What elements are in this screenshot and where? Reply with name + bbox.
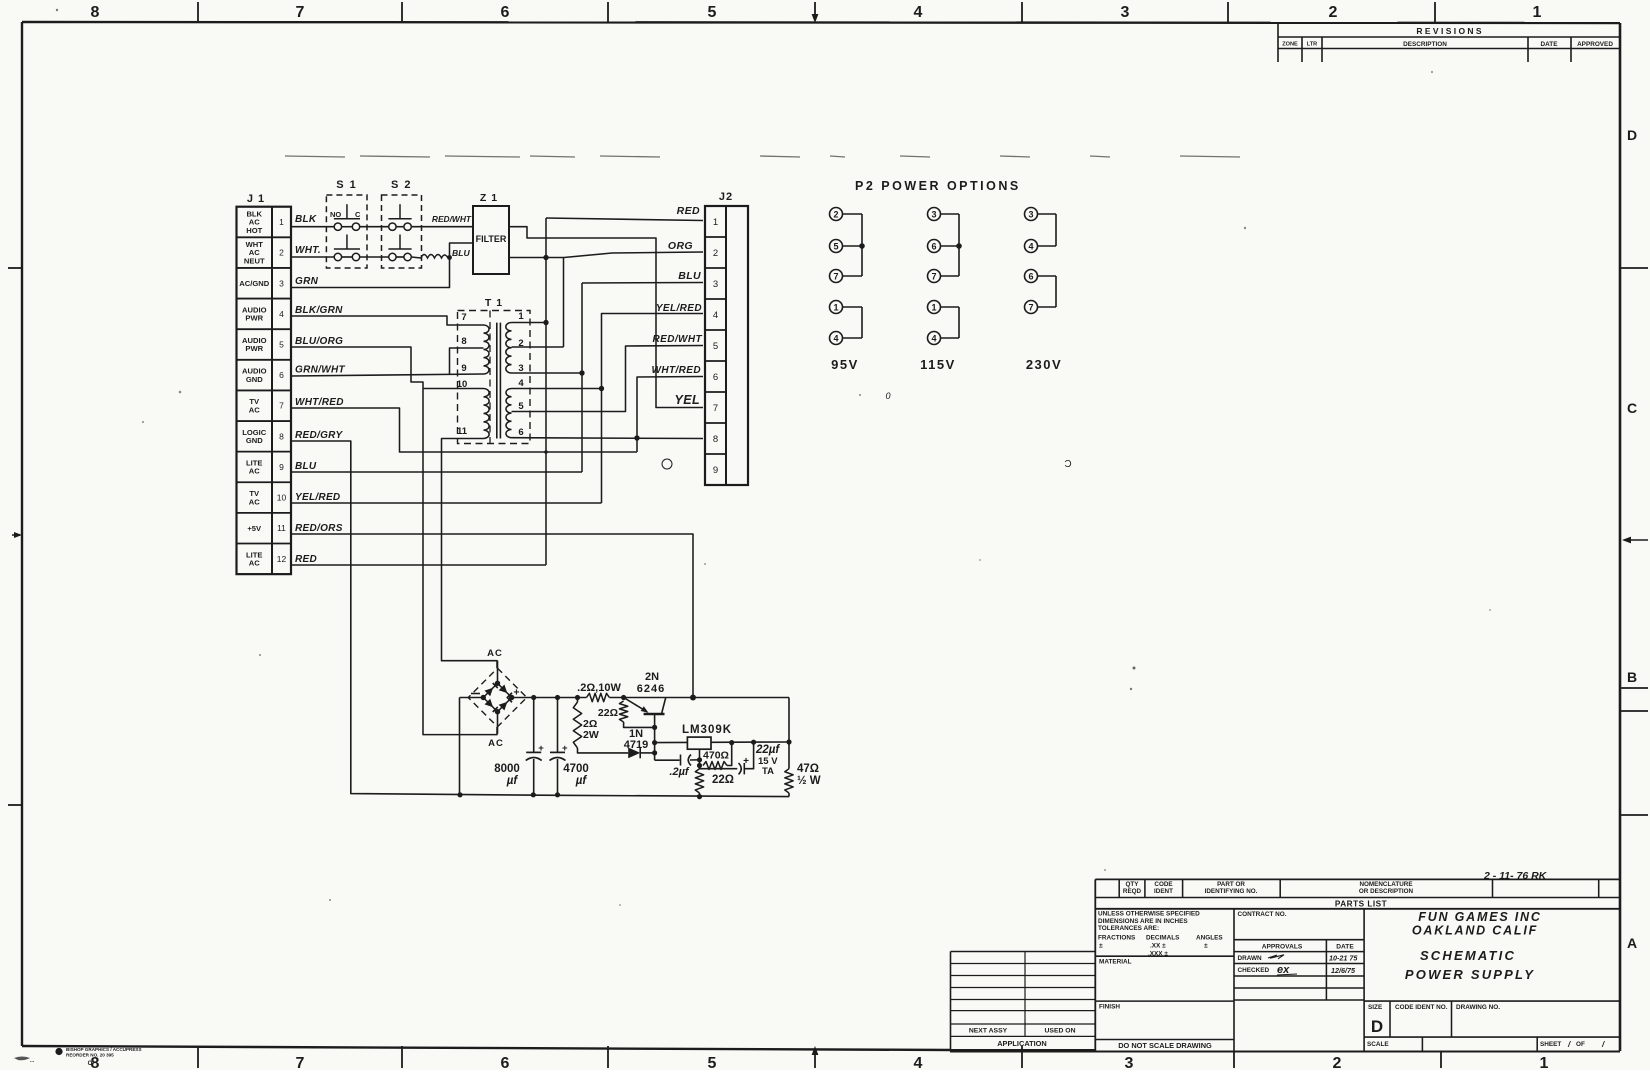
svg-text:RED/WHT: RED/WHT bbox=[653, 334, 703, 345]
svg-text:GND: GND bbox=[246, 375, 263, 384]
svg-text:4: 4 bbox=[518, 378, 524, 389]
svg-text:2N: 2N bbox=[645, 671, 659, 683]
svg-text:5: 5 bbox=[708, 1055, 717, 1070]
svg-text:3: 3 bbox=[518, 363, 523, 374]
svg-text:AC: AC bbox=[249, 405, 260, 414]
svg-text:10: 10 bbox=[457, 379, 468, 390]
svg-text:DATE: DATE bbox=[1541, 41, 1559, 48]
svg-text:BLK/GRN: BLK/GRN bbox=[295, 305, 343, 316]
svg-text:BISHOP GRAPHICS / ACCUPRESS: BISHOP GRAPHICS / ACCUPRESS bbox=[66, 1047, 142, 1052]
svg-text:4: 4 bbox=[914, 4, 923, 21]
svg-text:REORDER NO. 20 395: REORDER NO. 20 395 bbox=[66, 1053, 114, 1058]
svg-text:MATERIAL: MATERIAL bbox=[1099, 959, 1132, 966]
svg-text:6: 6 bbox=[279, 370, 284, 380]
svg-text:11: 11 bbox=[457, 426, 468, 437]
svg-text:DATE: DATE bbox=[1336, 944, 1354, 951]
svg-text:5: 5 bbox=[713, 341, 718, 352]
svg-text:TA: TA bbox=[762, 766, 774, 777]
svg-text:6246: 6246 bbox=[637, 683, 665, 695]
svg-text:4: 4 bbox=[713, 310, 718, 321]
svg-text:GND: GND bbox=[246, 436, 263, 445]
svg-text:10-21 75: 10-21 75 bbox=[1329, 954, 1358, 963]
svg-text:4: 4 bbox=[931, 333, 936, 343]
svg-text:6: 6 bbox=[931, 241, 936, 251]
svg-text:Z 1: Z 1 bbox=[480, 192, 498, 204]
svg-text:3: 3 bbox=[931, 209, 936, 219]
svg-text:FRACTIONS: FRACTIONS bbox=[1098, 935, 1136, 942]
svg-text:BLU: BLU bbox=[295, 461, 317, 472]
svg-text:POWER SUPPLY: POWER SUPPLY bbox=[1405, 967, 1535, 982]
svg-text:PARTS LIST: PARTS LIST bbox=[1335, 900, 1387, 909]
svg-text:NEXT ASSY: NEXT ASSY bbox=[969, 1028, 1008, 1035]
svg-text:S 1: S 1 bbox=[336, 179, 357, 191]
svg-text:ORG: ORG bbox=[668, 240, 693, 252]
svg-text:2: 2 bbox=[279, 248, 284, 258]
svg-text:CODE: CODE bbox=[1154, 881, 1172, 888]
svg-text:NEUT: NEUT bbox=[244, 256, 265, 265]
svg-text:4: 4 bbox=[914, 1055, 923, 1070]
svg-text:PWR: PWR bbox=[245, 314, 263, 323]
svg-text:AC: AC bbox=[249, 497, 260, 506]
svg-text:FILTER: FILTER bbox=[476, 234, 507, 244]
svg-text:.2Ω,10W: .2Ω,10W bbox=[577, 682, 621, 694]
svg-text:PART OR: PART OR bbox=[1217, 881, 1245, 888]
svg-text:J2: J2 bbox=[719, 191, 733, 203]
svg-text:22Ω: 22Ω bbox=[712, 774, 734, 786]
svg-text:QTY: QTY bbox=[1126, 881, 1140, 888]
svg-text:OAKLAND CALIF: OAKLAND CALIF bbox=[1412, 924, 1538, 938]
svg-text:DO NOT SCALE DRAWING: DO NOT SCALE DRAWING bbox=[1118, 1041, 1212, 1050]
svg-text:Ɔ: Ɔ bbox=[1064, 459, 1071, 470]
svg-text:8: 8 bbox=[279, 431, 284, 441]
svg-text:AC: AC bbox=[249, 467, 260, 476]
svg-text:OF: OF bbox=[1576, 1041, 1585, 1048]
svg-text:S 2: S 2 bbox=[391, 179, 412, 191]
svg-text:RED/ORS: RED/ORS bbox=[295, 523, 343, 534]
svg-text:OR DESCRIPTION: OR DESCRIPTION bbox=[1359, 888, 1414, 895]
svg-text:4: 4 bbox=[279, 309, 284, 319]
svg-text:4: 4 bbox=[833, 333, 838, 343]
svg-text:FINISH: FINISH bbox=[1099, 1004, 1120, 1011]
svg-text:12/6/75: 12/6/75 bbox=[1331, 966, 1356, 975]
svg-text:47Ω: 47Ω bbox=[797, 763, 819, 775]
svg-text:+: + bbox=[562, 743, 568, 754]
svg-text:5: 5 bbox=[708, 4, 717, 21]
svg-text:5: 5 bbox=[833, 241, 838, 251]
svg-text:1: 1 bbox=[713, 217, 718, 228]
svg-text:9: 9 bbox=[279, 462, 284, 472]
svg-text:2: 2 bbox=[713, 248, 718, 259]
svg-text:AC/GND: AC/GND bbox=[239, 279, 269, 288]
svg-text:LM309K: LM309K bbox=[682, 724, 732, 736]
svg-text:DRAWING NO.: DRAWING NO. bbox=[1456, 1004, 1500, 1011]
svg-text:±: ± bbox=[1099, 943, 1103, 950]
svg-text:5: 5 bbox=[518, 401, 524, 412]
svg-text:+5V: +5V bbox=[247, 524, 262, 533]
svg-text:RED: RED bbox=[677, 205, 700, 217]
svg-text:7: 7 bbox=[713, 403, 718, 414]
svg-text:9: 9 bbox=[461, 363, 466, 374]
svg-text:AC: AC bbox=[249, 559, 260, 568]
svg-text:5: 5 bbox=[279, 339, 284, 349]
svg-text:4: 4 bbox=[1028, 241, 1033, 251]
svg-text:3: 3 bbox=[1121, 4, 1130, 21]
svg-text:95V: 95V bbox=[831, 357, 859, 372]
svg-text:...: ... bbox=[30, 1058, 35, 1064]
svg-text:WHT.: WHT. bbox=[295, 245, 321, 256]
svg-text:+: + bbox=[743, 756, 749, 767]
svg-text:7: 7 bbox=[833, 271, 838, 281]
svg-text:470Ω: 470Ω bbox=[703, 750, 729, 762]
svg-text:8: 8 bbox=[461, 336, 466, 347]
svg-text:±: ± bbox=[1204, 943, 1208, 950]
svg-text:FUN GAMES INC: FUN GAMES INC bbox=[1418, 910, 1541, 924]
svg-text:GRN: GRN bbox=[295, 276, 319, 287]
svg-text:WHT/RED: WHT/RED bbox=[295, 397, 344, 408]
svg-text:APPLICATION: APPLICATION bbox=[997, 1039, 1047, 1048]
svg-text:6: 6 bbox=[501, 1055, 510, 1070]
svg-text:µf: µf bbox=[506, 775, 519, 787]
svg-text:SCALE: SCALE bbox=[1367, 1041, 1389, 1048]
svg-text:7: 7 bbox=[296, 4, 305, 21]
svg-text:CONTRACT NO.: CONTRACT NO. bbox=[1238, 911, 1287, 918]
svg-text:IDENTIFYING NO.: IDENTIFYING NO. bbox=[1205, 888, 1258, 895]
svg-text:LTR: LTR bbox=[1307, 42, 1317, 48]
svg-text:3: 3 bbox=[279, 278, 284, 288]
svg-text:+: + bbox=[538, 743, 544, 754]
svg-text:7: 7 bbox=[279, 401, 284, 411]
svg-text:2W: 2W bbox=[583, 729, 599, 741]
svg-text:11: 11 bbox=[277, 523, 286, 533]
svg-text:7: 7 bbox=[931, 271, 936, 281]
svg-text:APPROVALS: APPROVALS bbox=[1262, 944, 1303, 951]
svg-text:BLU/ORG: BLU/ORG bbox=[295, 336, 343, 347]
svg-text:4700: 4700 bbox=[563, 763, 589, 775]
svg-text:NO: NO bbox=[330, 210, 341, 219]
svg-text:1: 1 bbox=[931, 302, 936, 312]
svg-text:GRN/WHT: GRN/WHT bbox=[295, 365, 345, 376]
svg-text:3: 3 bbox=[1028, 209, 1033, 219]
svg-text:O: O bbox=[88, 1061, 93, 1067]
svg-text:B: B bbox=[1627, 669, 1637, 685]
svg-text:4719: 4719 bbox=[624, 739, 648, 751]
svg-text:6: 6 bbox=[501, 4, 510, 21]
svg-text:1: 1 bbox=[1533, 4, 1542, 21]
svg-text:IDENT: IDENT bbox=[1154, 888, 1173, 895]
svg-text:µf: µf bbox=[575, 775, 588, 787]
svg-text:SIZE: SIZE bbox=[1368, 1004, 1383, 1011]
svg-text:P2 POWER OPTIONS: P2 POWER OPTIONS bbox=[855, 179, 1021, 193]
svg-text:2: 2 bbox=[833, 209, 838, 219]
svg-text:YEL/RED: YEL/RED bbox=[656, 303, 702, 314]
svg-text:NOMENCLATURE: NOMENCLATURE bbox=[1359, 881, 1412, 888]
svg-text:.2µf: .2µf bbox=[669, 766, 690, 778]
svg-text:.XX ±: .XX ± bbox=[1150, 943, 1166, 950]
svg-text:BLK: BLK bbox=[295, 214, 317, 225]
svg-text:REQD: REQD bbox=[1123, 888, 1142, 895]
svg-text:12: 12 bbox=[277, 554, 287, 564]
svg-text:SCHEMATIC: SCHEMATIC bbox=[1420, 948, 1516, 963]
svg-text:9: 9 bbox=[713, 465, 718, 476]
svg-text:D: D bbox=[1371, 1017, 1383, 1036]
svg-text:1: 1 bbox=[1540, 1055, 1549, 1070]
svg-text:APPROVED: APPROVED bbox=[1577, 41, 1613, 48]
svg-text:BLU: BLU bbox=[678, 270, 701, 282]
svg-text:6: 6 bbox=[518, 427, 523, 438]
svg-text:HOT: HOT bbox=[246, 226, 262, 235]
svg-text:AC: AC bbox=[487, 648, 503, 659]
svg-text:DIMENSIONS ARE IN INCHES: DIMENSIONS ARE IN INCHES bbox=[1098, 918, 1188, 925]
svg-text:D: D bbox=[1627, 127, 1637, 143]
svg-text:8000: 8000 bbox=[494, 763, 520, 775]
svg-text:1: 1 bbox=[833, 302, 838, 312]
svg-text:RED/WHT: RED/WHT bbox=[432, 214, 472, 224]
svg-text:115V: 115V bbox=[920, 357, 956, 372]
svg-text:8: 8 bbox=[713, 434, 718, 445]
svg-text:1: 1 bbox=[279, 217, 284, 227]
svg-text:½ W: ½ W bbox=[797, 775, 821, 787]
svg-text:7: 7 bbox=[1028, 302, 1033, 312]
svg-text:YEL/RED: YEL/RED bbox=[295, 492, 340, 503]
svg-text:ANGLES: ANGLES bbox=[1196, 935, 1223, 942]
svg-text:J 1: J 1 bbox=[247, 193, 265, 205]
svg-text:ZONE: ZONE bbox=[1282, 42, 1298, 48]
svg-text:2: 2 bbox=[1329, 4, 1338, 21]
svg-text:WHT/RED: WHT/RED bbox=[652, 365, 701, 376]
svg-text:3: 3 bbox=[713, 279, 718, 290]
svg-text:R E V I S I O N S: R E V I S I O N S bbox=[1416, 26, 1482, 36]
svg-text:2: 2 bbox=[1333, 1055, 1342, 1070]
svg-text:DECIMALS: DECIMALS bbox=[1146, 935, 1180, 942]
svg-text:6: 6 bbox=[1028, 271, 1033, 281]
svg-text:DESCRIPTION: DESCRIPTION bbox=[1403, 41, 1447, 48]
svg-text:230V: 230V bbox=[1026, 357, 1062, 372]
svg-text:3: 3 bbox=[1125, 1055, 1134, 1070]
svg-text:6: 6 bbox=[713, 372, 718, 383]
svg-text:DRAWN: DRAWN bbox=[1238, 955, 1263, 962]
svg-text:+: + bbox=[513, 687, 519, 699]
svg-text:22Ω: 22Ω bbox=[598, 707, 618, 719]
svg-text:RED: RED bbox=[295, 554, 317, 565]
svg-text:7: 7 bbox=[461, 312, 466, 323]
svg-text:USED ON: USED ON bbox=[1045, 1028, 1076, 1035]
svg-text:AC: AC bbox=[488, 738, 504, 749]
svg-text:RED/GRY: RED/GRY bbox=[295, 430, 344, 441]
svg-text:22µf: 22µf bbox=[755, 744, 780, 756]
svg-text:C: C bbox=[1627, 400, 1637, 416]
svg-text:1: 1 bbox=[518, 311, 524, 322]
svg-text:SHEET: SHEET bbox=[1540, 1041, 1561, 1048]
svg-text:CHECKED: CHECKED bbox=[1238, 967, 1270, 974]
svg-text:BLU: BLU bbox=[452, 248, 470, 258]
svg-text:0: 0 bbox=[885, 391, 890, 401]
svg-text:TOLERANCES ARE:: TOLERANCES ARE: bbox=[1098, 925, 1159, 932]
svg-text:UNLESS OTHERWISE SPECIFIED: UNLESS OTHERWISE SPECIFIED bbox=[1098, 911, 1200, 918]
svg-text:2: 2 bbox=[518, 338, 523, 349]
svg-text:7: 7 bbox=[296, 1055, 305, 1070]
svg-text:T 1: T 1 bbox=[485, 297, 503, 309]
svg-text:CODE IDENT NO.: CODE IDENT NO. bbox=[1395, 1004, 1448, 1011]
svg-text:A: A bbox=[1627, 935, 1637, 951]
svg-text:C: C bbox=[355, 210, 361, 219]
svg-text:8: 8 bbox=[91, 4, 100, 21]
svg-text:10: 10 bbox=[277, 493, 287, 503]
svg-text:YEL: YEL bbox=[674, 393, 700, 407]
svg-text:PWR: PWR bbox=[245, 344, 263, 353]
